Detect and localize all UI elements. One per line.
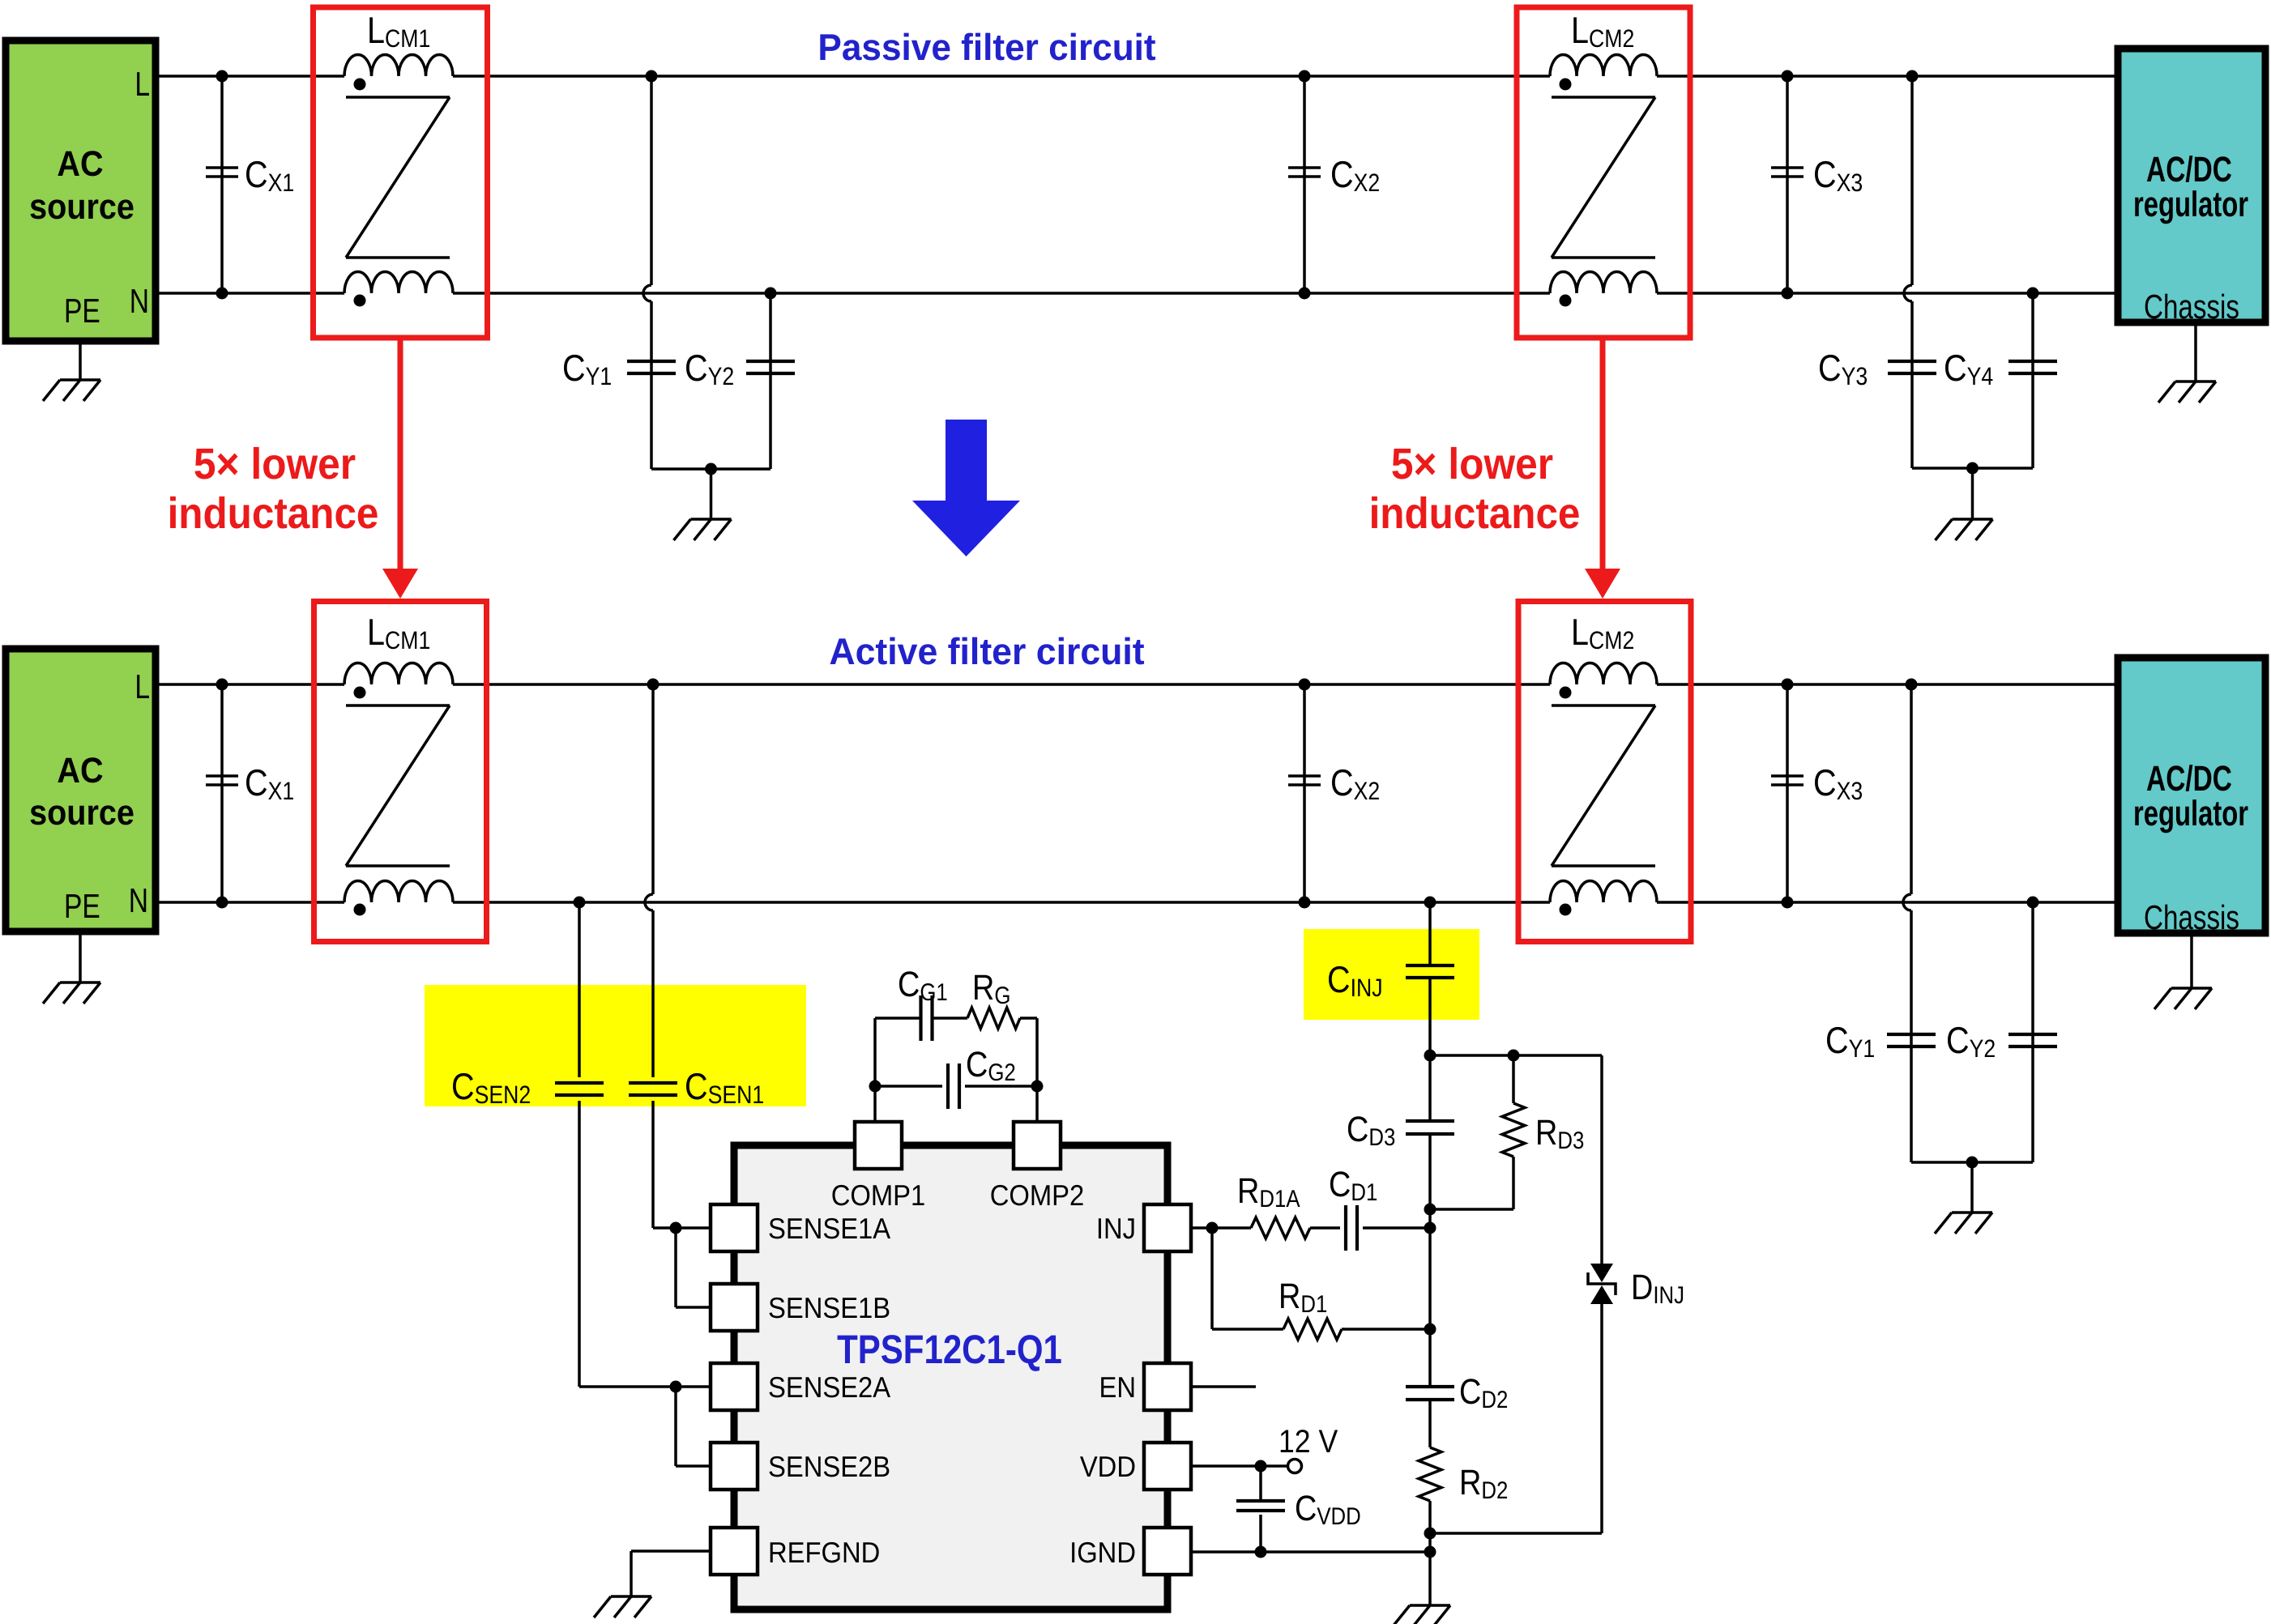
svg-text:SENSE1A: SENSE1A (768, 1212, 890, 1245)
svg-text:REFGND: REFGND (768, 1536, 880, 1569)
svg-text:N: N (130, 282, 149, 320)
svg-text:L: L (134, 667, 150, 705)
svg-text:SENSE2A: SENSE2A (768, 1370, 890, 1404)
svg-text:AC: AC (57, 751, 103, 791)
svg-text:COMP2: COMP2 (990, 1179, 1085, 1212)
svg-text:Passive filter circuit: Passive filter circuit (817, 26, 1155, 68)
svg-text:SENSE1B: SENSE1B (768, 1291, 890, 1324)
svg-text:AC/DC: AC/DC (2146, 759, 2232, 799)
svg-text:AC/DC: AC/DC (2146, 150, 2232, 190)
svg-text:regulator: regulator (2133, 794, 2248, 833)
svg-text:Chassis: Chassis (2144, 288, 2239, 326)
svg-text:12 V: 12 V (1279, 1424, 1338, 1460)
svg-text:inductance: inductance (1369, 489, 1581, 538)
svg-text:5× lower: 5× lower (194, 440, 356, 488)
svg-text:inductance: inductance (168, 489, 379, 538)
svg-text:source: source (29, 187, 134, 227)
svg-text:PE: PE (64, 887, 100, 925)
svg-text:TPSF12C1-Q1: TPSF12C1-Q1 (837, 1327, 1062, 1372)
svg-text:EN: EN (1099, 1370, 1136, 1404)
svg-text:L: L (134, 65, 150, 103)
svg-text:Chassis: Chassis (2144, 898, 2239, 936)
svg-text:regulator: regulator (2133, 185, 2248, 224)
svg-text:IGND: IGND (1069, 1536, 1136, 1569)
svg-text:N: N (129, 881, 148, 919)
svg-text:INJ: INJ (1096, 1212, 1136, 1245)
svg-text:SENSE2B: SENSE2B (768, 1450, 890, 1483)
svg-text:VDD: VDD (1080, 1450, 1136, 1483)
svg-text:COMP1: COMP1 (831, 1179, 926, 1212)
svg-text:PE: PE (64, 292, 100, 330)
svg-text:Active filter circuit: Active filter circuit (829, 630, 1144, 672)
svg-text:source: source (29, 793, 134, 833)
svg-text:5× lower: 5× lower (1391, 440, 1553, 488)
svg-text:AC: AC (57, 144, 103, 184)
